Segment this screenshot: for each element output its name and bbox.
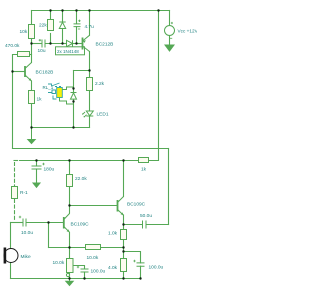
wire diode D1 bottom xyxy=(62,29,64,44)
svg-text:10.0u: 10.0u xyxy=(21,230,33,236)
wire right column down to 50u cap xyxy=(168,149,170,225)
svg-text:2x 1N4148: 2x 1N4148 xyxy=(57,49,79,54)
wire vcc source stub xyxy=(169,11,171,26)
svg-text:100.0u: 100.0u xyxy=(91,269,106,275)
wire 4.7u cap bottom to node C xyxy=(76,27,78,44)
junction feedback / 1.0k xyxy=(122,246,124,248)
svg-text:BC109C: BC109C xyxy=(127,202,146,208)
junction D1 / D2 xyxy=(61,42,63,44)
junction Q4 base / feedback xyxy=(47,221,49,223)
wire 1k to ground rail xyxy=(31,104,33,128)
wire Q2 emitter to 1k xyxy=(31,81,33,91)
svg-text:100.0u: 100.0u xyxy=(149,265,164,271)
junction node A 10k-10u-470k xyxy=(30,42,32,44)
wire 22k top xyxy=(50,11,52,21)
svg-text:10.0k: 10.0k xyxy=(87,255,99,261)
relay RL_1 xyxy=(48,83,62,99)
wire Q1 to Q2 base xyxy=(70,205,118,207)
junction 4.7u / Q3 base xyxy=(75,42,77,44)
capacitor C 4.7u xyxy=(74,20,81,29)
wire node B to D2 xyxy=(63,43,67,45)
resistor R 1.0k xyxy=(108,230,127,240)
diode D1 1N4148 vertical xyxy=(59,22,65,29)
capacitor C 10.0u xyxy=(19,216,26,227)
wire Q1 emitter node to trimmer xyxy=(69,248,71,259)
resistor R 22k xyxy=(39,20,54,31)
wire relay branch vertical xyxy=(73,71,75,93)
svg-text:4.7u: 4.7u xyxy=(85,24,95,30)
wire 4.7u cap top xyxy=(76,11,78,24)
svg-text:4.0k: 4.0k xyxy=(108,265,118,271)
wire vcc rail right xyxy=(149,11,159,161)
resistor R 10.0k feedback xyxy=(86,245,101,262)
junction relay coil bottom / D3 xyxy=(72,100,74,102)
wire 180u cap top xyxy=(36,161,38,167)
wire Q1 emitter down xyxy=(69,233,71,248)
ground bottom section xyxy=(66,279,73,286)
transistor Q3 BC212B pnp xyxy=(83,35,90,51)
capacitor C 10u xyxy=(39,39,45,48)
svg-text:10.0k: 10.0k xyxy=(53,260,65,266)
capacitor C 50.0u xyxy=(143,221,147,229)
wire 2.2k top xyxy=(89,71,91,79)
wire collector node to relay branch xyxy=(74,70,90,72)
svg-text:180u: 180u xyxy=(44,167,55,173)
junction bottom rail / cap1 xyxy=(83,277,85,279)
wire Q2 emitter to 50.0u xyxy=(124,224,143,226)
svg-text:BC109C: BC109C xyxy=(71,222,90,228)
junction Q3 collector / relay branch xyxy=(88,69,90,71)
callout box 2x 1N4148 xyxy=(56,47,85,55)
wire dashed mic boundary lower xyxy=(14,200,16,220)
svg-text:22.0k: 22.0k xyxy=(75,176,87,182)
junction top rail / 22k xyxy=(49,9,51,11)
junction Q5 emitter / 50.0u xyxy=(122,223,124,225)
wire relay diode to ground rail xyxy=(73,100,75,128)
wire dashed mic boundary upper xyxy=(14,163,16,186)
wire node C to Q3 base xyxy=(77,43,83,45)
wire mic to 10.0u xyxy=(11,222,23,224)
junction top rail / Vcc column xyxy=(157,9,159,11)
svg-text:Mike: Mike xyxy=(21,254,31,260)
wire 470k right tap xyxy=(30,54,32,56)
wire Q3 emitter up to rail xyxy=(89,11,91,36)
svg-text:BC182B: BC182B xyxy=(36,70,54,76)
wire LED to ground rail xyxy=(89,116,91,128)
wire top ground rail xyxy=(32,127,90,129)
capacitor C 100.0u wiper bypass xyxy=(77,266,89,272)
svg-text:LED1: LED1 xyxy=(97,112,109,118)
junction 1k / ground rail xyxy=(30,126,32,128)
svg-text:2.2k: 2.2k xyxy=(95,81,105,87)
resistor R 1k emitter xyxy=(29,91,43,104)
svg-text:470.0k: 470.0k xyxy=(5,43,20,49)
junction top rail / Q3 emitter xyxy=(88,9,90,11)
wire D2 to node C xyxy=(73,43,77,45)
transistor Q1 BC182B xyxy=(25,63,32,82)
wire mic bottom to rail xyxy=(10,263,12,279)
svg-text:R-1: R-1 xyxy=(20,190,28,196)
svg-text:1.0k: 1.0k xyxy=(108,231,118,237)
wire trimmer tap xyxy=(74,266,85,270)
wire 10.0k to emitter node Q2 xyxy=(101,247,124,249)
capacitor C 180u xyxy=(32,163,45,169)
junction relay branch / ground rail xyxy=(72,126,74,128)
microphone Mike xyxy=(4,248,31,264)
junction bottom rail / cap2 xyxy=(139,277,141,279)
wire top rail xyxy=(32,10,170,12)
ground 180u xyxy=(33,183,40,187)
wire 4.0k to bottom rail xyxy=(123,272,125,279)
junction bottom rail / trimmer xyxy=(68,277,70,279)
wire trimmer to bottom rail xyxy=(69,273,71,279)
resistor R 470.0k xyxy=(5,43,30,57)
wire Q2 collector to rail xyxy=(123,161,125,197)
wire 180u cap to ground xyxy=(36,169,38,183)
svg-text:10u: 10u xyxy=(38,48,46,54)
svg-text:Vcc +12V: Vcc +12V xyxy=(178,29,198,34)
wire bottom rail xyxy=(11,278,141,280)
wire vcc source to arrow xyxy=(169,36,171,46)
wire dashed rail stub xyxy=(14,160,18,162)
svg-text:1k: 1k xyxy=(141,167,147,173)
wire cap2 to rail xyxy=(140,266,142,278)
junction left rail / Q2 base xyxy=(11,70,13,72)
LED1 xyxy=(82,111,93,117)
transistor Q5 BC109C second xyxy=(118,197,124,216)
wire 50.0u to right column xyxy=(147,224,169,226)
wire feedback drop from base node xyxy=(48,223,50,248)
resistor R 10k xyxy=(20,25,35,39)
wire cross link left rail to right column xyxy=(13,148,169,150)
junction supply rail / 180u xyxy=(35,159,37,161)
resistor R 1k supply xyxy=(139,158,149,173)
svg-text:10k: 10k xyxy=(20,29,28,35)
wire Q2 emitter node xyxy=(123,215,125,230)
power source Vcc +12V xyxy=(165,22,175,51)
wire relay coil bottom to node xyxy=(60,98,74,105)
svg-text:RL_1: RL_1 xyxy=(43,85,54,90)
wire 10k to node A xyxy=(31,39,33,44)
wire bottom rail left of 1k xyxy=(20,160,139,162)
resistor R 4.0k xyxy=(108,259,127,272)
wire left column 10k drop xyxy=(31,11,33,25)
wire mic column xyxy=(10,223,12,249)
wire diode D1 top xyxy=(62,11,64,23)
wire 100.0u cap1 to rail xyxy=(84,272,86,279)
svg-text:50.0u: 50.0u xyxy=(140,213,152,219)
wire 22k bottom to node B xyxy=(50,34,52,44)
wire feedback to 10.0k xyxy=(49,247,86,249)
wire emitter node to cap2 xyxy=(124,252,141,263)
junction supply rail / 22.0k xyxy=(68,159,70,161)
junction relay coil top / D3 xyxy=(72,87,74,89)
junction Q4 emitter / feedback xyxy=(68,246,70,248)
wire 10u cap to node B xyxy=(46,43,63,45)
svg-text:1k: 1k xyxy=(37,97,43,103)
junction Q4 collector / Q5 base xyxy=(68,204,70,206)
capacitor C 100.0u emitter bypass xyxy=(133,260,144,266)
diode D2 1N4148 horizontal xyxy=(67,40,73,46)
wire 22.0k to Q1 collector node xyxy=(69,187,71,206)
wire node A down to collector tap xyxy=(31,44,33,63)
junction top rail / D1 xyxy=(61,9,63,11)
resistor preset 10.0k trimmer xyxy=(53,259,74,277)
resistor R 2.2k xyxy=(87,78,105,91)
junction supply rail / Q5 collector xyxy=(122,159,124,161)
wire relay coil top to node xyxy=(63,87,74,90)
wire Q3 collector down xyxy=(89,52,91,71)
wire Q2 base xyxy=(13,71,25,73)
svg-text:BC212B: BC212B xyxy=(96,42,114,48)
junction 10u / 22k xyxy=(49,42,51,44)
wire 10.0u to Q1 base xyxy=(27,222,64,224)
wire 22.0k top xyxy=(69,161,71,175)
wire feedback node to 4.0k xyxy=(123,252,125,259)
wire 1.0k to feedback node xyxy=(123,239,125,252)
junction top rail / 4.7u xyxy=(75,9,77,11)
resistor R-1 dashed mic bias xyxy=(12,187,29,199)
diode D3 relay flyback xyxy=(71,93,77,100)
wire Q1 collector link xyxy=(69,206,71,214)
wire 2.2k to LED xyxy=(89,91,91,112)
wire node A to 10u cap xyxy=(32,43,42,45)
svg-text:22k: 22k xyxy=(39,23,47,29)
ground top section xyxy=(28,128,35,144)
junction 4.0k / cap2 branch xyxy=(122,250,124,252)
resistor R 22.0k xyxy=(67,175,88,187)
junction bottom rail / 4.0k xyxy=(122,277,124,279)
wire 470k left drop xyxy=(13,55,18,149)
transistor Q4 BC109C input xyxy=(64,206,70,233)
